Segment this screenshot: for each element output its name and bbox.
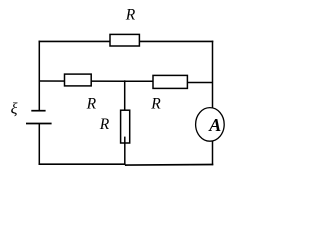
resistor R1 top: [110, 34, 139, 46]
wire stub through R4 to bottom: [124, 137, 126, 165]
wire branch down from node: [124, 80, 126, 110]
wire middle right: [187, 82, 213, 84]
wire top: [39, 40, 214, 42]
ammeter A1 body: [196, 108, 225, 142]
wire bottom right: [125, 164, 213, 167]
svg-text:R: R: [86, 96, 97, 113]
battery cell E top plate: [31, 110, 45, 112]
resistor R3 middle-right: [153, 75, 187, 88]
resistor R4 vertical: [121, 110, 130, 143]
resistor R2 middle-left: [65, 74, 92, 86]
svg-text:R: R: [99, 116, 110, 133]
wire middle left: [39, 80, 153, 82]
wire left lower: [38, 124, 40, 166]
wire right: [212, 41, 214, 166]
wire bottom left: [39, 163, 126, 165]
svg-text:R: R: [125, 6, 136, 23]
svg-text:A: A: [208, 115, 221, 135]
battery cell E bottom plate: [26, 123, 52, 125]
wire left upper: [38, 41, 40, 111]
svg-text:ξ: ξ: [11, 100, 18, 117]
svg-text:R: R: [150, 95, 161, 112]
